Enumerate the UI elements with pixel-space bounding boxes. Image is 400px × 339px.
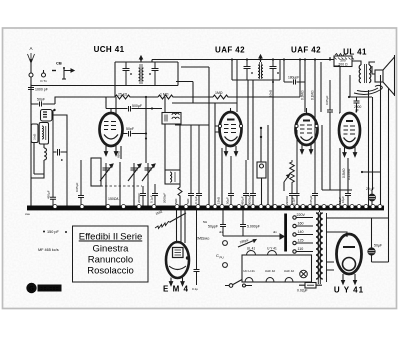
coupling capacitor 180pF (269, 60, 306, 98)
UCH41 tube U1 (100, 109, 123, 156)
wire column (268, 80, 273, 207)
grid labels vertical (342, 168, 351, 180)
capacitor (53, 130, 67, 207)
wire (299, 60, 301, 98)
capacitor 50uF below bus (208, 210, 284, 236)
fuse (297, 283, 322, 293)
svg-text:0.1μF: 0.1μF (194, 196, 198, 204)
capacitor 10uF (341, 194, 351, 208)
plate rail (152, 59, 352, 61)
svg-text:U Y 41: U Y 41 (334, 286, 364, 295)
svg-text:0.05μF: 0.05μF (309, 195, 313, 205)
svg-text:20 μF: 20 μF (366, 187, 375, 191)
wire grid column (322, 125, 352, 190)
svg-text:10kΩ: 10kΩ (269, 89, 273, 97)
svg-text:Ranuncolo: Ranuncolo (88, 255, 133, 266)
svg-text:50pF: 50pF (126, 127, 134, 131)
electrolytic 20uF (366, 187, 375, 207)
svg-text:din: din (219, 230, 223, 234)
capacitor to bus (137, 186, 146, 207)
svg-text:UAF 42: UAF 42 (284, 269, 295, 273)
wire (362, 75, 389, 262)
EM4 tube (166, 242, 189, 286)
capacitor 50pF grid (123, 127, 147, 137)
tone bar (273, 214, 287, 252)
svg-text:din: din (273, 230, 277, 234)
oscillator coil box (162, 113, 181, 125)
svg-text:UAF 42: UAF 42 (215, 46, 245, 55)
svg-text:0.5MΩ: 0.5MΩ (342, 168, 346, 178)
antenna terminal (29, 73, 33, 77)
main ground bus (25, 205, 384, 217)
svg-text:Ginestra: Ginestra (93, 244, 130, 255)
capacitor to bus (309, 146, 318, 207)
junction (361, 171, 363, 173)
resistor diagonal near EM4 (155, 209, 186, 228)
svg-text:5.000pF: 5.000pF (247, 225, 260, 229)
resistor 1MΩ (158, 93, 213, 100)
oscillator padding coil box (39, 123, 48, 145)
svg-text:450μF: 450μF (241, 196, 245, 205)
svg-text:50μF: 50μF (374, 244, 382, 248)
svg-text:50pF: 50pF (37, 98, 45, 102)
UL41 plate resistor box 200 ohm (330, 54, 354, 67)
svg-text:5kΩ: 5kΩ (174, 198, 178, 204)
capacitor to bus (228, 156, 234, 207)
electrolytic small (257, 128, 266, 207)
svg-text:0.1μF: 0.1μF (292, 197, 296, 205)
svg-text:csa: csa (25, 212, 30, 216)
antenna coil box upper (41, 109, 56, 121)
svg-text:0.1μ: 0.1μ (192, 287, 198, 291)
wire column (181, 67, 215, 207)
antenna A (28, 46, 35, 104)
svg-text:Effedibi II Serie: Effedibi II Serie (79, 232, 143, 243)
resistor 5k to bus (174, 184, 182, 207)
wire (106, 162, 148, 207)
wire avc line (172, 82, 237, 126)
svg-text:0.1μF: 0.1μF (150, 195, 154, 203)
svg-text:3 kΩ: 3 kΩ (33, 133, 37, 140)
wire transformer top (320, 210, 389, 218)
svg-text:5kΩ: 5kΩ (186, 198, 190, 204)
svg-text:A: A (29, 46, 32, 51)
capacitor 0.05 (325, 80, 333, 190)
svg-text:UAF 42: UAF 42 (265, 269, 276, 273)
variable capacitor C osc (128, 163, 141, 182)
capacitor 1000pF (28, 84, 48, 104)
svg-text:500μF: 500μF (132, 104, 142, 108)
anode resistor column (192, 210, 210, 291)
node dots (145, 96, 153, 140)
capacitor 5000pF (240, 210, 260, 236)
screen dropper resistors (301, 60, 322, 156)
note 150 pF (43, 230, 67, 234)
svg-text:2000pF: 2000pF (163, 193, 167, 203)
capacitor to bus (243, 160, 249, 207)
svg-text:160: 160 (298, 222, 304, 226)
capacitor to bus (75, 160, 84, 207)
node dots (260, 127, 262, 138)
svg-text:65kΩ: 65kΩ (117, 150, 121, 158)
svg-text:140: 140 (298, 230, 304, 234)
switch (225, 280, 252, 288)
svg-text:UAF 42: UAF 42 (291, 46, 321, 55)
capacitor to bus (152, 184, 158, 207)
trimmer CB (52, 61, 74, 80)
svg-text:0.05μF: 0.05μF (75, 182, 79, 192)
IF transformer T2 (232, 55, 280, 160)
svg-text:10μF: 10μF (338, 197, 342, 204)
speaker (372, 55, 395, 96)
grid resistor 25kΩ (115, 93, 158, 100)
svg-text:2MΩ: 2MΩ (203, 237, 210, 241)
180pF arrow (238, 238, 256, 247)
svg-text:150Ω/L: 150Ω/L (108, 197, 119, 201)
svg-text:G: G (29, 286, 34, 292)
electrolytic 50uF (368, 218, 389, 262)
svg-text:1000 pF: 1000 pF (35, 88, 48, 92)
ground terminal O.Tn (40, 70, 47, 83)
wire (164, 97, 166, 113)
svg-text:O.Tn: O.Tn (40, 79, 47, 83)
volume potentiometer (284, 160, 294, 191)
wire (145, 97, 147, 163)
heater wires (326, 262, 334, 270)
coil (44, 144, 47, 174)
svg-text:0.1MΩ: 0.1MΩ (311, 90, 315, 100)
capacitor to bus (285, 184, 295, 207)
capacitor 500pF (106, 97, 162, 114)
phono terminals (216, 241, 227, 268)
svg-text:180μpF: 180μpF (288, 76, 299, 80)
wire (221, 148, 223, 207)
capacitor to bus (250, 160, 256, 207)
component value labels near bus (150, 193, 343, 205)
wire (31, 143, 44, 179)
UY41 tube (337, 234, 362, 284)
svg-text:450μF: 450μF (47, 190, 51, 199)
Effedibi title box (73, 226, 149, 282)
svg-text:UL 41: UL 41 (343, 48, 367, 57)
svg-text:U Y 41: U Y 41 (267, 247, 277, 251)
svg-text:Rosolaccio: Rosolaccio (87, 266, 133, 277)
tuning gang frame (91, 158, 101, 186)
variable capacitor C ant (142, 163, 155, 182)
svg-text:pF: pF (355, 109, 359, 113)
capacitor to bus (188, 125, 194, 207)
svg-text:1MΩ: 1MΩ (215, 91, 223, 95)
svg-text:50μF: 50μF (226, 197, 230, 204)
svg-text:2900Ω: 2900Ω (285, 195, 289, 205)
variable capacitor left (100, 163, 113, 182)
power transformer (316, 212, 327, 284)
filament wiring box (242, 247, 312, 283)
UAF42 tube U3 (295, 108, 318, 154)
svg-text:GELOSO: GELOSO (40, 286, 60, 291)
output transformer (352, 61, 375, 83)
svg-text:125: 125 (298, 239, 304, 243)
svg-text:MF 465 kc/s: MF 465 kc/s (38, 248, 59, 252)
svg-text:0.05μF: 0.05μF (325, 95, 329, 105)
UAF42 tube U2 (215, 108, 243, 156)
capacitor 2000pF out (348, 75, 372, 113)
wire riser to grid line (55, 97, 115, 104)
wire (165, 124, 180, 170)
svg-text:150 pF: 150 pF (47, 230, 60, 234)
oscillator coil lower (165, 170, 180, 184)
svg-text:15kΩ: 15kΩ (217, 196, 221, 204)
svg-text:220V: 220V (297, 213, 306, 217)
capacitor 50pF (31, 98, 55, 107)
main left dropper (47, 110, 57, 207)
svg-text:UC H 41: UC H 41 (243, 269, 255, 273)
wire (334, 66, 340, 113)
svg-text:CB: CB (56, 61, 62, 66)
wire EM4 (177, 210, 186, 243)
wire to UY41 (326, 232, 347, 237)
svg-text:UCH 41: UCH 41 (94, 45, 125, 54)
capacitor to bus (295, 130, 300, 207)
svg-text:110: 110 (298, 247, 304, 251)
antenna coil box lower 3kΩ (31, 124, 38, 143)
wire (151, 60, 153, 63)
svg-text:PU: PU (220, 256, 224, 260)
ganging dashed link (96, 185, 142, 187)
rail junction dots (140, 58, 331, 60)
wire columns right (340, 90, 373, 207)
svg-text:2MΩ: 2MΩ (196, 237, 204, 241)
svg-text:50μpF: 50μpF (208, 225, 218, 229)
wire (52, 115, 67, 130)
IF transformer T1 (31, 56, 178, 97)
svg-text:5000μF: 5000μF (248, 195, 252, 205)
svg-text:2000pF: 2000pF (137, 193, 141, 203)
resistor vertical (117, 146, 122, 159)
UL41 tube U4 (339, 113, 360, 157)
speaker flourish (354, 85, 382, 94)
svg-text:0.02μF: 0.02μF (297, 289, 308, 293)
svg-text:UL 41: UL 41 (247, 247, 256, 251)
svg-text:E M 4: E M 4 (163, 285, 189, 294)
transformer taps (293, 213, 313, 253)
wire left main (30, 104, 32, 207)
capacitor to bus (196, 125, 202, 207)
logo stamp (26, 283, 61, 293)
resistor 1M second (213, 91, 300, 99)
svg-text:0.3MΩ: 0.3MΩ (301, 90, 305, 100)
